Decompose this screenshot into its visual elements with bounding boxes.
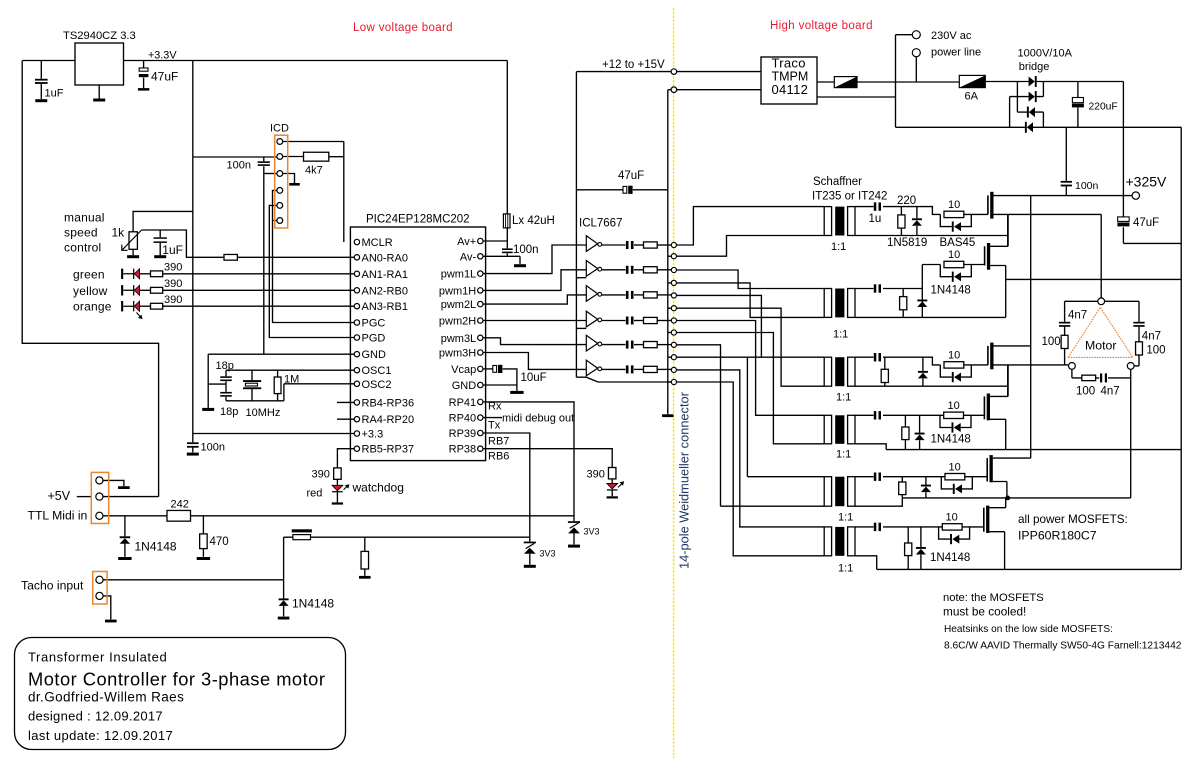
wire LED yellow to resistor (140, 289, 151, 291)
wire motor left branch (1065, 301, 1098, 365)
svg-text:1N4148: 1N4148 (292, 597, 334, 611)
resistor series ch1 (644, 242, 658, 248)
svg-text:10: 10 (946, 512, 958, 524)
ground regulator (93, 85, 105, 102)
wire mains L (857, 81, 959, 83)
svg-text:RA4-RP20: RA4-RP20 (362, 414, 415, 426)
svg-text:100n: 100n (1075, 180, 1099, 192)
wire motor top feed (1100, 297, 1102, 299)
ground zener RB7 (524, 565, 536, 568)
wire midi in row (103, 515, 574, 517)
wire 1uF input cap stem (40, 61, 42, 98)
resistor 220 ch2 (900, 297, 907, 310)
svg-text:PGC: PGC (362, 318, 386, 330)
svg-text:red: red (307, 488, 323, 500)
wire bas45 loop ch6 (939, 527, 970, 539)
wire bead row (284, 536, 530, 538)
wire diode vert ch6 (920, 527, 922, 570)
wire RP40 Tx stub (483, 417, 502, 419)
svg-text:yellow: yellow (73, 284, 108, 298)
resistor 390 (orange) (151, 303, 163, 309)
resistor series ch5 (644, 342, 658, 348)
wire zener Rx stem (573, 533, 575, 544)
wire 470 gnd stem (202, 549, 204, 557)
node midi pin1 (96, 477, 103, 484)
svg-text:390: 390 (587, 469, 605, 481)
wire Traco out2 (817, 96, 895, 98)
wire 220uF stems (1077, 82, 1079, 128)
resistor 220 ch5 (899, 482, 906, 495)
node pole 8 (671, 330, 676, 335)
svg-text:3V3: 3V3 (584, 527, 600, 537)
capacitor 100n (bus) (187, 442, 199, 447)
wire 220 stubs ch2 (902, 289, 904, 318)
wire pwm3L route (483, 338, 586, 345)
resistor 220 ch3 (881, 369, 888, 382)
svg-text:1:1: 1:1 (836, 392, 851, 404)
wire Q1 drain to +325 (994, 195, 1133, 197)
svg-text:Tx: Tx (488, 420, 501, 432)
ground 470 (197, 557, 210, 560)
wire pole7 to T4 top (677, 321, 825, 416)
svg-text:1:1: 1:1 (838, 563, 853, 575)
transformer T1 Schaffner 1:1 (824, 207, 855, 236)
node motor phase B (1069, 363, 1076, 370)
wire ICD pin1 to 4k7 node (283, 142, 344, 243)
resistor 100 right (1136, 342, 1143, 355)
capacitor coupling ch1 (626, 241, 634, 249)
wire 47uF stem (143, 61, 145, 89)
svg-text:dr.Godfried-Willem Raes: dr.Godfried-Willem Raes (28, 690, 184, 705)
wire resistor to pole ch4 (657, 320, 671, 322)
node pole 6 (671, 306, 676, 311)
svg-text:OSC2: OSC2 (362, 379, 392, 391)
svg-text:100n: 100n (201, 442, 225, 454)
svg-text:IT235 or IT242: IT235 or IT242 (812, 191, 887, 203)
svg-text:AN2-RB0: AN2-RB0 (362, 285, 408, 297)
svg-text:+12 to +15V: +12 to +15V (602, 59, 665, 71)
svg-text:midi debug out: midi debug out (502, 413, 574, 425)
wire driver out ch4 (602, 320, 626, 322)
wire Q3 drain (994, 345, 1031, 347)
capacitor 100n (ICD) (258, 161, 270, 166)
wire Av+ row (483, 240, 507, 242)
wire ICL gnd stub 2 (576, 277, 586, 279)
wire 10uF loop (503, 369, 517, 391)
wire 1uF pot stem (159, 230, 161, 255)
svg-text:390: 390 (164, 262, 182, 274)
wire T6 sec top (855, 526, 942, 528)
ground PIC right (510, 391, 523, 394)
svg-text:1uF: 1uF (162, 243, 183, 257)
wire pot wiper (142, 230, 224, 257)
diode clamp ch5 (921, 485, 931, 493)
transformer T6 Schaffner 1:1 (824, 527, 855, 556)
svg-text:10: 10 (948, 400, 960, 412)
resistor 390 (watchdog) (334, 468, 342, 479)
wire gate ch1 (964, 213, 988, 215)
wire cap to resistor ch5 (634, 344, 644, 346)
svg-text:Tacho input: Tacho input (21, 579, 84, 593)
watchdog LED arrow (344, 484, 350, 489)
wire ICD pin3 gnd hook (283, 174, 295, 183)
wire pwm3H route (483, 353, 586, 370)
svg-text:1N4148: 1N4148 (930, 552, 970, 564)
wire cap to resistor ch6 (634, 368, 644, 370)
wire midi pin1 gnd (103, 480, 124, 486)
pin AN1-RA1 (left) (354, 271, 359, 276)
RB6 LED arrow (618, 481, 624, 487)
node pole 5 (671, 293, 676, 298)
svg-text:1:1: 1:1 (838, 512, 853, 524)
wire pole12 to T6 bottom (677, 382, 825, 556)
wire yellow LED to PIC (163, 289, 355, 291)
capacitor 100n (Av) (502, 248, 513, 253)
resistor AN0 series (224, 254, 237, 260)
inverter U6 ICL7667 ch5 (586, 335, 601, 351)
wire +12 rail (576, 71, 761, 73)
svg-text:RB4-RP36: RB4-RP36 (362, 397, 415, 409)
fuse F1 (834, 77, 857, 88)
ground 1uF (35, 98, 47, 102)
svg-text:4n7: 4n7 (1068, 310, 1087, 322)
capacitor coupling ch2 (626, 266, 634, 274)
board separation line (yellow dashed) (673, 8, 675, 758)
capacitor coupling ch5 (626, 341, 634, 349)
wire 100n ICD stub (263, 157, 265, 354)
diode bridge D3 (1027, 107, 1035, 118)
wire 18p cap1 stubs (225, 370, 227, 384)
pin MCLR (left) (354, 239, 359, 244)
transformer T5 Schaffner 1:1 (824, 477, 855, 507)
wire mains N vert (896, 35, 913, 128)
node ICD pin 6 (277, 218, 283, 224)
pin Av- (right) (478, 254, 483, 259)
title block box (15, 638, 346, 750)
wire crystal gnd branch (208, 383, 226, 385)
motor triangle (orange) (1068, 307, 1133, 357)
ground 100n bus (187, 452, 199, 455)
wire driver out ch2 (602, 269, 626, 271)
ground midi diode (118, 557, 131, 560)
wire resistor to pole ch6 (657, 368, 671, 370)
wire 220 stubs ch3 (884, 357, 886, 386)
wire Q2 source (990, 266, 1006, 318)
ground RB6 LED (607, 490, 618, 498)
wire GND row crystal (208, 353, 354, 355)
capacitor 1u ch5 (874, 473, 881, 481)
wire ICD pin5 PGD (269, 205, 354, 337)
IC U1 PIC24EP128MC202 (350, 227, 485, 461)
wire 47uF 12V rail (576, 189, 667, 191)
pin AN2-RB0 (left) (354, 288, 359, 293)
node midi pin3 (96, 512, 103, 519)
transistor Q4 MOSFET (984, 394, 990, 421)
wire Q5 drain (993, 457, 1031, 459)
capacitor coupling ch4 (626, 317, 634, 325)
wire pole return stub y357.2 (668, 356, 671, 358)
diode 1N4148 ch6 (916, 547, 926, 555)
wire RB5 to watchdog (337, 449, 354, 468)
wire Q6 drain up (989, 498, 1005, 508)
wire +3.3V vertical bus (192, 61, 194, 434)
diode bridge D2 (1029, 91, 1037, 102)
potentiometer R 1k (129, 232, 137, 250)
svg-text:pwm2H: pwm2H (439, 316, 476, 328)
pin RP39 (right) (478, 430, 483, 435)
resistor series ch6 (644, 366, 658, 372)
pin RP40 (right) (478, 415, 483, 420)
wire ICD pin2 to 4k7 (283, 156, 304, 158)
svg-text:+3.3V: +3.3V (148, 50, 177, 62)
svg-text:ICD: ICD (270, 123, 289, 135)
wire bridge AC1 vert (1016, 82, 1018, 113)
diode turn-off ch4 (952, 422, 961, 432)
wire +325 right loop (1123, 82, 1181, 570)
svg-text:1u: 1u (869, 213, 882, 225)
wire pole10 T3 top row (677, 356, 825, 358)
wire 220 stubs ch4 (904, 415, 906, 449)
node pole 10 (671, 355, 676, 360)
node junction phase C (1005, 496, 1010, 501)
wire T3 sec top (855, 357, 940, 365)
node tacho pin2 (96, 592, 103, 599)
node ICD pin 5 (277, 203, 283, 209)
regulator TS2940CZ box (75, 43, 124, 85)
pin RA4-RP20 (left) (354, 417, 359, 422)
diode turn-off ch2 (952, 272, 961, 282)
svg-text:GND: GND (452, 380, 477, 392)
ground Av (514, 264, 526, 267)
capacitor 100n HV (1061, 181, 1072, 187)
inverter U5 ICL7667 ch4 (586, 311, 601, 327)
wire 230V drop (915, 57, 917, 82)
node 230V terminal 1 (912, 31, 920, 39)
wire 18p cap2 stubs (225, 384, 227, 401)
wire 1M stubs (277, 370, 279, 401)
wire bas45 loop ch2 (940, 265, 971, 277)
svg-text:+3.3: +3.3 (362, 429, 384, 441)
svg-text:1:1: 1:1 (833, 328, 848, 340)
wire low return A (1006, 278, 1181, 280)
svg-text:220uF: 220uF (1089, 102, 1118, 113)
wire resistor to pole ch5 (657, 344, 671, 346)
transistor Q5 MOSFET (987, 455, 993, 482)
transistor Q3 MOSFET (988, 343, 994, 370)
diode 1N4148 midi (120, 536, 130, 544)
svg-text:RB5-RP37: RB5-RP37 (362, 444, 415, 456)
svg-text:Vcap: Vcap (451, 364, 476, 376)
wire phase A return vert (1007, 214, 1009, 246)
svg-text:AN3-RB1: AN3-RB1 (362, 301, 408, 313)
pin OSC2 (left) (354, 381, 359, 386)
svg-text:1M: 1M (284, 374, 299, 386)
pin pwm1H (right) (478, 288, 483, 293)
wire tri6 bottom to p12 (576, 377, 671, 382)
diode turn-off ch5 (953, 484, 962, 494)
wire GND pin row (right) (483, 384, 517, 386)
wire ICD pin4 PGC (273, 190, 355, 322)
svg-text:pwm3L: pwm3L (441, 333, 476, 345)
svg-text:4n7: 4n7 (1142, 331, 1161, 343)
svg-text:AN0-RA0: AN0-RA0 (362, 252, 408, 264)
ground connector bus (662, 409, 673, 417)
ground tacho diode (278, 616, 290, 619)
svg-text:RP39: RP39 (449, 428, 477, 440)
wire 100n bus stem (192, 434, 194, 453)
pin +3.3 (left) (354, 431, 359, 436)
node pole 4 (671, 280, 676, 285)
diode turn-off ch6 (950, 534, 959, 544)
wire AN0 input (237, 256, 354, 258)
svg-text:390: 390 (164, 294, 182, 306)
svg-text:designed : 12.09.2017: designed : 12.09.2017 (28, 709, 163, 724)
node motor phase C (1127, 363, 1134, 370)
capacitor 4n7 right (1133, 322, 1144, 327)
capacitor 47uF (12V) (623, 186, 633, 194)
wire pole1 to T1 top (677, 207, 825, 245)
wire RP41 Rx net (483, 402, 574, 521)
svg-text:bridge: bridge (1019, 61, 1050, 73)
svg-text:470: 470 (210, 536, 229, 548)
svg-text:10MHz: 10MHz (246, 407, 281, 419)
svg-text:pwm1L: pwm1L (441, 269, 476, 281)
node pole 1 (671, 242, 676, 247)
diode bridge D4 (1025, 122, 1033, 133)
wire ICD pin3 to gnd bus (264, 173, 277, 175)
wire Q4 drain up (990, 365, 1008, 397)
pin RP41 (right) (478, 399, 483, 404)
svg-text:100: 100 (1042, 336, 1061, 348)
wire Vcap row (483, 368, 493, 370)
wire T2 return rail (855, 316, 1006, 318)
wire RP38 RB6 net (483, 449, 612, 468)
wire pole11 to T6 top (677, 370, 825, 527)
svg-text:390: 390 (164, 278, 182, 290)
LED orange (121, 301, 140, 311)
pin pwm2L (right) (478, 301, 483, 306)
svg-text:14-pole Weidmueller connector: 14-pole Weidmueller connector (677, 391, 692, 569)
svg-text:PGD: PGD (362, 333, 386, 345)
node midi pin2 (96, 493, 103, 500)
connector +5V midi (orange) (91, 472, 108, 523)
svg-text:18p: 18p (220, 406, 238, 418)
capacitor 1u ch6 (874, 523, 881, 531)
ground watchdog LED (332, 492, 343, 504)
wire pwm2L route (483, 295, 586, 304)
diode zener 3V3 (RB7) (524, 542, 536, 554)
LED green (121, 269, 140, 279)
capacitor 18p (bottom) (220, 392, 232, 397)
svg-text:last update: 12.09.2017: last update: 12.09.2017 (28, 728, 173, 743)
diode 1N4148 ch4 (915, 433, 925, 441)
svg-text:Av+: Av+ (457, 236, 476, 248)
wire pole return stub y382 (668, 381, 671, 383)
wire cap to resistor ch4 (634, 320, 644, 322)
svg-text:100: 100 (1076, 386, 1095, 398)
svg-text:1N4148: 1N4148 (931, 434, 971, 446)
resistor 4k7 (304, 152, 329, 161)
wire phase A row (994, 214, 1102, 298)
svg-text:10: 10 (948, 199, 960, 211)
wire bridge D3 out (1035, 112, 1043, 127)
capacitor 10uF (493, 365, 503, 373)
pin PGD (left) (354, 335, 359, 340)
wire midi pin2 +5V (103, 496, 159, 498)
resistor 220 ch6 (905, 543, 912, 556)
wire 1N5819 vert ch1 (916, 207, 918, 236)
wire 100n HV stem (1065, 127, 1067, 195)
svg-text:+5V: +5V (48, 489, 71, 503)
node 230V terminal 2 (912, 49, 920, 57)
svg-text:1uF: 1uF (45, 88, 64, 100)
svg-text:1:1: 1:1 (836, 449, 851, 461)
pin RB4-RP36 (left) (354, 400, 359, 405)
LED red (RB6) (607, 484, 618, 491)
wire LED orange to resistor (140, 305, 151, 307)
node motor phase A (1098, 298, 1105, 305)
fuse F2 6A (959, 75, 985, 87)
capacitor 1u ch4 (874, 411, 881, 419)
svg-text:242: 242 (171, 499, 189, 511)
ground tacho pin2 (105, 619, 117, 622)
capacitor 4n7 bottom (1100, 373, 1107, 382)
diode zener 3V3 (Rx) (568, 521, 580, 533)
wire midi diode gnd stem (124, 544, 126, 557)
wire Lx vertical (506, 61, 508, 242)
wire pole3 to T2 top (677, 270, 825, 289)
svg-text:PIC24EP128MC202: PIC24EP128MC202 (366, 214, 470, 226)
wire ICL supply vertical (575, 72, 577, 378)
resistor series ch3 (644, 292, 658, 298)
ground zener Rx (568, 544, 580, 547)
svg-text:10: 10 (949, 461, 961, 473)
resistor 100 left (1061, 335, 1068, 348)
diode turn-off ch1 (952, 222, 961, 232)
wire T1 sec top (855, 207, 940, 215)
wire midi diode stem (124, 516, 126, 537)
wire pwm1H route (483, 270, 586, 291)
wire resistor to pole ch2 (657, 269, 671, 271)
svg-text:4k7: 4k7 (305, 165, 323, 177)
wire T6 return rail (855, 556, 1181, 570)
svg-text:47uF: 47uF (618, 170, 644, 182)
svg-text:18p: 18p (216, 360, 234, 372)
resistor 390 (green) (151, 271, 163, 277)
pin GND (left) (354, 352, 359, 357)
wire phase B return vert (1007, 365, 1009, 397)
svg-text:IPP60R180C7: IPP60R180C7 (1018, 529, 1097, 543)
wire driver out ch1 (602, 244, 626, 246)
svg-text:390: 390 (312, 469, 330, 481)
wire Q5 source down (993, 482, 1007, 498)
wire watchdog LED stem (336, 479, 338, 485)
svg-text:10: 10 (948, 249, 960, 261)
ground 47uF (138, 88, 149, 91)
wire 220 stubs ch1 (900, 207, 902, 236)
pin OSC1 (left) (354, 368, 359, 373)
svg-text:RB7: RB7 (488, 436, 509, 448)
wire pole6 to T3 bottom (677, 308, 825, 386)
svg-text:8.6C/W AAVID Thermally SW50-4G: 8.6C/W AAVID Thermally SW50-4G Farnell:1… (944, 641, 1182, 652)
connector ICD (orange) (275, 135, 288, 228)
svg-text:TS2940CZ 3.3: TS2940CZ 3.3 (63, 30, 136, 42)
svg-text:ICL7667: ICL7667 (579, 218, 622, 230)
diode turn-off ch3 (952, 372, 961, 382)
wire diode vert ch4 (919, 415, 921, 449)
pin AN3-RB1 (left) (354, 304, 359, 309)
transistor Q6 MOSFET (984, 506, 990, 533)
